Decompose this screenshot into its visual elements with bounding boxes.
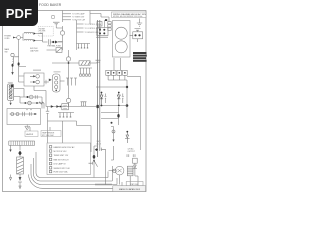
stubs into relay xyxy=(33,69,41,71)
bus line N3 xyxy=(31,174,117,185)
capacitor C1 xyxy=(48,39,52,44)
heater H2 xyxy=(127,166,133,176)
contact dots xyxy=(99,29,101,31)
pin down xyxy=(10,101,12,103)
main bus jog xyxy=(77,126,98,178)
label box heater xyxy=(25,131,38,137)
junction blob xyxy=(18,62,20,65)
resistor R2 xyxy=(39,102,44,104)
connector J1 xyxy=(60,31,64,35)
motor connector CN3 xyxy=(54,71,61,73)
lamp LP1 xyxy=(11,113,14,116)
svg-text:LED LAMP 5V: LED LAMP 5V xyxy=(54,163,67,166)
capacitor C7 xyxy=(30,112,32,115)
diode D1 xyxy=(33,32,36,35)
lamp LP4 xyxy=(28,101,32,105)
wire left drop xyxy=(111,146,114,160)
junction n2 xyxy=(126,104,129,107)
wire bus riser xyxy=(76,20,78,50)
capacitor C4 xyxy=(46,107,49,122)
terminal strip CN2 xyxy=(9,141,35,145)
comb J6 xyxy=(58,113,74,117)
fuse F2 blob xyxy=(18,151,21,156)
svg-text:HEATER: HEATER xyxy=(26,133,34,136)
inner row marks xyxy=(26,109,32,111)
capacitor C5 xyxy=(35,95,37,99)
wire to right riser xyxy=(127,76,141,150)
svg-text:UNIT: UNIT xyxy=(39,33,44,35)
inductor L1 xyxy=(24,32,33,33)
diode D6 xyxy=(56,105,59,108)
svg-text:NTC 10K OHM: NTC 10K OHM xyxy=(42,135,54,137)
svg-text:THERMAL FUSE: THERMAL FUSE xyxy=(47,44,62,47)
heater H1 xyxy=(17,157,24,174)
svg-text:MODEL HB-100 SERIES 120V 60Hz: MODEL HB-100 SERIES 120V 60Hz xyxy=(113,16,142,18)
arrow A2 xyxy=(9,150,11,153)
connector J3 xyxy=(66,57,70,61)
wire y118 xyxy=(101,118,119,120)
pin symbols xyxy=(66,78,77,85)
wire relay to cn3 xyxy=(44,81,49,83)
relay K2 box xyxy=(24,73,44,86)
scr Q1 xyxy=(101,92,103,94)
fuse F1 xyxy=(56,48,62,53)
inductor L2 xyxy=(24,39,33,40)
switch SW2 xyxy=(94,161,98,167)
motor winding lower xyxy=(115,41,127,53)
legend texts xyxy=(54,146,76,174)
bus tap marks xyxy=(96,60,101,62)
svg-text:MOTOR 6 VDC: MOTOR 6 VDC xyxy=(54,151,68,153)
svg-text:TO CONTROL PCB A: TO CONTROL PCB A xyxy=(85,23,102,26)
switch SW1 xyxy=(11,53,14,56)
capacitor C9 xyxy=(133,154,135,157)
svg-text:OUTPUT: OUTPUT xyxy=(128,151,136,153)
stub net 1 xyxy=(63,13,72,15)
junction n1 xyxy=(126,86,128,88)
diode D3 xyxy=(55,41,58,44)
wire drop to legend xyxy=(48,121,63,143)
wire y63 xyxy=(52,62,98,64)
svg-text:TO TIMER UNIT: TO TIMER UNIT xyxy=(72,17,84,19)
diode D5 xyxy=(51,105,54,108)
riser x127 xyxy=(126,80,128,118)
main bus V1 xyxy=(97,20,99,157)
wire to node B xyxy=(58,41,63,43)
wire row under strip xyxy=(108,75,127,80)
bus line N1 xyxy=(36,172,108,178)
rectifier block xyxy=(133,32,143,39)
stamp box upper xyxy=(126,182,143,186)
svg-text:MADE IN JAPAN 2003: MADE IN JAPAN 2003 xyxy=(119,188,141,191)
pdf badge xyxy=(0,0,38,26)
capacitor C2 to ground xyxy=(53,22,63,28)
wire across xyxy=(96,20,108,37)
arrow A1 xyxy=(11,72,13,75)
node merge xyxy=(36,34,48,43)
capacitor C6 xyxy=(23,112,25,116)
fuse F3 xyxy=(95,148,98,151)
thermostat TH1 xyxy=(126,131,128,133)
inductor L3 xyxy=(13,57,14,72)
bus thick segment xyxy=(95,184,112,186)
plug P1 xyxy=(17,36,21,40)
resistor R1 box xyxy=(79,61,90,65)
junction blob xyxy=(93,155,96,159)
scr Q2 xyxy=(118,92,120,94)
small comb J7 xyxy=(81,102,87,106)
relay K1 box xyxy=(97,22,102,27)
legend row symbols xyxy=(49,146,51,148)
connector J5 xyxy=(66,98,70,102)
svg-text:CORD: CORD xyxy=(4,38,10,40)
junction n3 xyxy=(117,114,119,118)
label box power supply xyxy=(38,27,53,37)
wire inside xyxy=(10,113,38,115)
riser to bus xyxy=(31,152,36,174)
arrow A3 xyxy=(19,177,22,181)
comb J4 xyxy=(79,68,92,74)
stamp box lower xyxy=(113,186,146,192)
svg-text:FUSE 250V 10A: FUSE 250V 10A xyxy=(54,171,69,174)
svg-text:TIMER UNIT 12V: TIMER UNIT 12V xyxy=(54,155,69,157)
junction n4 xyxy=(111,122,113,124)
stub net 6 xyxy=(77,31,84,33)
ground GND1 xyxy=(137,19,142,27)
stub net 5 xyxy=(77,27,84,29)
connector CN1 xyxy=(8,82,13,84)
gate marks Q1 xyxy=(105,94,107,104)
wire node B vertical xyxy=(62,11,64,23)
ground stub A4 xyxy=(9,175,11,181)
wire y105.5 xyxy=(100,105,127,107)
svg-text:HEATER 600W 120V AC: HEATER 600W 120V AC xyxy=(54,146,76,149)
terminal ladder TB1 xyxy=(108,22,111,24)
center node riser xyxy=(68,50,70,57)
small motor M3 xyxy=(113,169,116,172)
lamp LP2 xyxy=(16,113,19,116)
legend box xyxy=(47,143,91,175)
varistor RV1 xyxy=(133,158,138,163)
page frame xyxy=(3,11,147,192)
connector comb J2 xyxy=(77,44,91,49)
stub net 4 xyxy=(77,23,84,25)
title block top right xyxy=(112,12,147,18)
gate marks Q2 xyxy=(122,94,124,104)
wire y87 xyxy=(96,86,127,88)
wire L line xyxy=(14,37,17,39)
svg-text:PAT 2001: PAT 2001 xyxy=(131,183,139,186)
aux riser xyxy=(104,149,106,184)
blob xyxy=(12,64,14,67)
junction xyxy=(68,62,70,64)
wire y106.5 xyxy=(48,106,98,108)
svg-text:AC IN: AC IN xyxy=(97,142,102,145)
junction blob xyxy=(52,41,54,43)
wire drop xyxy=(62,26,64,31)
stub to switch xyxy=(14,57,26,67)
blob xyxy=(97,105,99,108)
label box sensor xyxy=(41,131,61,137)
wire y97 row1 xyxy=(14,89,42,98)
dark label block xyxy=(133,52,147,62)
step wire xyxy=(34,86,48,107)
motor winding upper xyxy=(115,27,127,39)
plug drop wire xyxy=(18,39,20,82)
wire y103 row2 xyxy=(14,97,44,104)
capacitor C8 xyxy=(127,154,129,157)
svg-text:TO MOTOR CAP: TO MOTOR CAP xyxy=(72,19,86,22)
junction xyxy=(59,106,61,108)
diode D2 xyxy=(33,39,36,42)
stub net 3 xyxy=(63,19,72,21)
svg-text:TO OVEN LAMP: TO OVEN LAMP xyxy=(72,13,86,16)
ic U1 xyxy=(62,104,69,110)
stub drops to boxes xyxy=(30,127,50,131)
wire drops xyxy=(11,145,21,150)
svg-text:FAN MOTOR 12V: FAN MOTOR 12V xyxy=(54,158,70,161)
stub with bar xyxy=(89,162,93,165)
drops to pcb xyxy=(42,97,44,109)
lamp LP3 xyxy=(29,95,33,99)
bus line N2 xyxy=(34,166,113,181)
capacitor C10 xyxy=(100,148,104,151)
feed arrow xyxy=(49,79,52,82)
wire y121 xyxy=(48,121,77,126)
main bus V2 xyxy=(99,20,101,150)
svg-text:10A FUSE: 10A FUSE xyxy=(30,49,39,52)
svg-text:FOOD BAKER: FOOD BAKER xyxy=(39,3,62,7)
punch hole xyxy=(51,15,54,18)
bus line N4 xyxy=(29,175,122,189)
stub net 2 xyxy=(63,16,72,18)
motor M1 box xyxy=(113,21,131,58)
svg-text:SW: SW xyxy=(5,51,8,53)
capacitor C3 xyxy=(135,29,141,32)
wires motor to strip xyxy=(114,58,121,70)
buzzer BZ1 xyxy=(25,125,30,131)
arrow feed xyxy=(13,37,15,39)
junction xyxy=(105,19,107,21)
junction cap xyxy=(45,80,47,84)
wire y112 xyxy=(101,107,119,125)
svg-text:SENSOR NTC 10K: SENSOR NTC 10K xyxy=(54,168,71,170)
svg-text:PDF: PDF xyxy=(6,6,33,21)
sensor SN1 xyxy=(112,130,115,133)
pcb box lower left xyxy=(7,109,41,125)
terminal strip TB2 xyxy=(106,70,111,75)
top step wire xyxy=(90,11,109,25)
fan motor M2 xyxy=(115,166,124,175)
